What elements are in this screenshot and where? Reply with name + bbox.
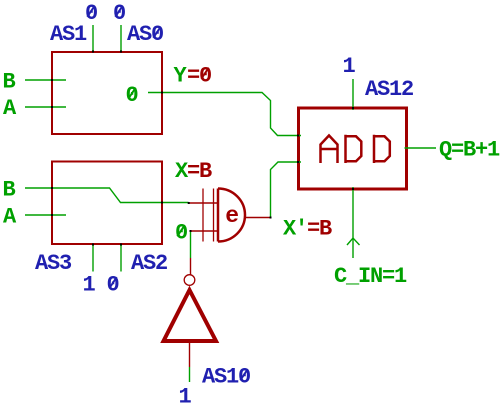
gate G1 e label	[225, 203, 238, 229]
wire ADD top pin	[352, 79, 354, 110]
net label AS10	[202, 365, 250, 390]
value label 1 on AS12	[343, 54, 356, 79]
value label B on U2	[3, 178, 16, 203]
wire U1 select pin S0	[120, 25, 122, 52]
slashed-zero overlays	[87, 6, 247, 381]
svg-text:1: 1	[83, 273, 96, 298]
wire U2 input A	[25, 214, 66, 216]
wire U1 input B	[25, 79, 66, 81]
svg-text:B: B	[3, 178, 16, 203]
svg-text:=B: =B	[187, 159, 212, 184]
wire inverter output to gate G1 lower input	[190, 231, 192, 258]
net label AS1	[50, 22, 87, 47]
wire U2 input B through to X	[25, 188, 189, 203]
inverter G2 triangle	[164, 290, 217, 341]
svg-text:Y: Y	[174, 64, 188, 89]
value label B	[3, 70, 16, 95]
wire ADD output Q	[405, 147, 437, 149]
net label Q=B+1	[439, 138, 500, 163]
svg-text:A: A	[3, 96, 17, 121]
svg-text:1: 1	[179, 385, 192, 405]
net label X'=B	[283, 217, 332, 242]
wire Y output to ADD	[148, 93, 301, 136]
svg-text:AS0: AS0	[127, 22, 163, 47]
wire U2 select pin S0	[120, 245, 122, 272]
ADD label text	[321, 135, 390, 163]
svg-text:0: 0	[85, 1, 97, 26]
net label AS12	[365, 77, 413, 102]
value label 0 inside U1	[126, 83, 138, 108]
value label A	[3, 96, 17, 121]
net label AS3	[35, 251, 72, 276]
wire U1 select pin S1	[92, 25, 94, 52]
inverter G2 output stub	[189, 341, 191, 367]
value label 0 on inverter output	[175, 221, 187, 246]
svg-text:=0: =0	[187, 64, 211, 89]
value label A on U2	[3, 205, 17, 230]
svg-text:AS3: AS3	[35, 251, 72, 276]
svg-text:AS12: AS12	[365, 77, 413, 102]
net label X=B	[175, 159, 212, 184]
svg-text:1: 1	[343, 54, 356, 79]
ADD box U3	[299, 108, 407, 189]
svg-text:AS2: AS2	[131, 251, 167, 276]
svg-text:B: B	[3, 70, 16, 95]
svg-text:A: A	[3, 205, 17, 230]
svg-text:X': X'	[283, 217, 307, 242]
inverter G2 input stub	[190, 258, 192, 275]
wire U2 select pin S1	[92, 245, 94, 272]
gate G1 comparator e-gate	[189, 189, 271, 242]
net label AS0	[127, 22, 163, 47]
mux box U2	[52, 162, 162, 245]
svg-text:=B: =B	[307, 217, 332, 242]
value label 0 on S1 pin	[85, 1, 97, 26]
wire gate G1 output to ADD	[271, 162, 302, 218]
svg-text:e: e	[225, 203, 238, 229]
value label 1 on AS10	[179, 385, 192, 405]
wire U1 input A	[25, 106, 66, 108]
svg-text:C_IN=1: C_IN=1	[334, 264, 407, 289]
net label Y=0	[174, 64, 212, 89]
net label C_IN=1	[334, 264, 407, 289]
wire inverter output	[189, 367, 191, 382]
net label AS2	[131, 251, 167, 276]
value label 1 on AS3	[83, 273, 96, 298]
mux box U1	[52, 52, 162, 134]
svg-text:Q=B+1: Q=B+1	[439, 138, 500, 163]
svg-text:0: 0	[113, 1, 125, 26]
wire ADD carry-in C_IN with arrow	[347, 187, 360, 258]
inverter G2 bubble	[184, 275, 195, 286]
svg-text:AS1: AS1	[50, 22, 87, 47]
value label 0 on S0 pin	[113, 1, 125, 26]
value label 0 on AS2	[107, 273, 119, 298]
svg-text:0: 0	[175, 221, 187, 246]
